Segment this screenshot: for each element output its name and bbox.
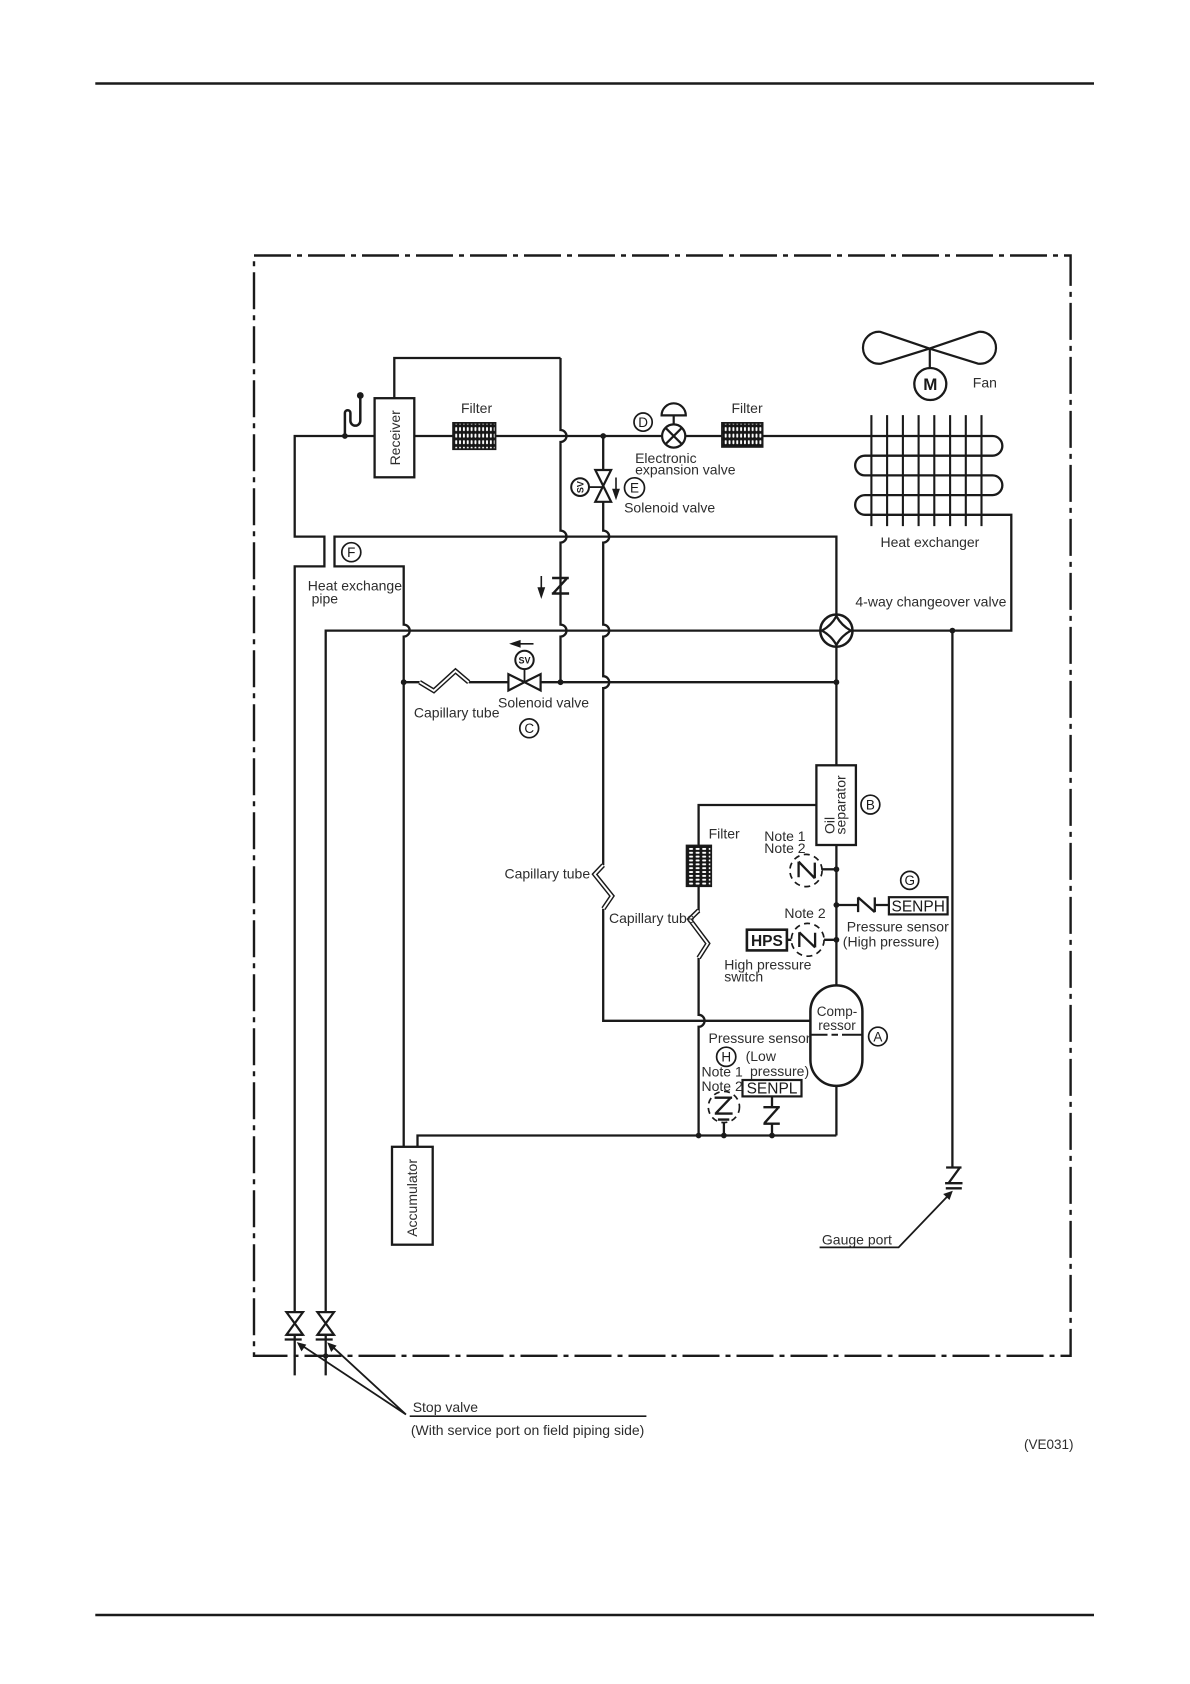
wire: suction line accumulator to compressor <box>418 1136 837 1147</box>
capillary tube 3 <box>690 911 708 958</box>
wire: liquid main line receiver to left corner and down-left riser with heat-exchange-pipe jog to stop valve 1 <box>295 436 375 1312</box>
stop valve 2 <box>316 1312 334 1339</box>
outdoor unit dash-dot border <box>254 256 1071 1356</box>
svg-text:A: A <box>873 1029 882 1044</box>
svg-text:SV: SV <box>518 655 530 665</box>
svg-text:(With service port on field pi: (With service port on field piping side) <box>411 1422 644 1438</box>
solenoid valve C <box>508 641 540 691</box>
svg-text:E: E <box>630 481 639 496</box>
filter 3 (oil return) <box>687 825 740 886</box>
svg-text:switch: switch <box>724 968 763 984</box>
svg-text:Note 2: Note 2 <box>784 905 825 921</box>
svg-text:Filter: Filter <box>732 400 763 416</box>
svg-text:Heat exchanger: Heat exchanger <box>881 534 980 550</box>
node: SENPL drop <box>769 1133 775 1139</box>
wire: stop valve tails below seats <box>295 1335 326 1376</box>
svg-text:Pressure sensor: Pressure sensor <box>847 919 949 935</box>
wire: heat exchange pipe inner line F loop to 4-way valve top <box>335 537 837 1147</box>
wire: SENPL drops to suction line <box>724 1096 772 1135</box>
svg-text:Solenoid valve: Solenoid valve <box>498 694 589 710</box>
svg-text:4-way changeover valve: 4-way changeover valve <box>855 594 1006 610</box>
svg-text:Pressure sensor: Pressure sensor <box>709 1030 811 1046</box>
svg-text:F: F <box>347 545 355 560</box>
wire: main liquid line receiver-filter-EEV-filter to heat exchanger with serpentine coil <box>414 436 1011 631</box>
check valve N1 (Note1/Note2) <box>790 854 822 886</box>
node: accumulator line junction <box>401 679 407 685</box>
check valve at HPS (Note2) <box>791 923 824 956</box>
gauge port leader arrow <box>820 1191 953 1248</box>
filter 1 (liquid line) <box>453 400 495 449</box>
svg-text:Note 2: Note 2 <box>764 840 805 856</box>
high pressure switch HPS box <box>747 930 787 951</box>
wire: solenoid C bypass line <box>404 681 837 683</box>
svg-text:Filter: Filter <box>709 825 740 841</box>
svg-text:Accumulator: Accumulator <box>404 1159 420 1237</box>
compressor A <box>810 985 862 1086</box>
fan motor M <box>914 349 946 400</box>
capillary tube 2 <box>595 865 612 909</box>
oil separator B <box>816 765 856 845</box>
wire: compressor bottom to suction line <box>835 1086 837 1136</box>
svg-text:Gauge port: Gauge port <box>822 1231 892 1247</box>
wire: gauge port line <box>951 631 953 1168</box>
SENPL sensor box <box>743 1080 802 1098</box>
SENPH sensor box <box>889 897 948 915</box>
label circle B <box>861 795 880 814</box>
svg-text:Stop valve: Stop valve <box>413 1399 479 1415</box>
page top rule <box>95 82 1094 85</box>
node: stop valve 2 at border <box>323 1353 328 1358</box>
check valve at SENPH <box>858 897 875 912</box>
node: solenoid C line junction <box>834 679 840 685</box>
wire: receiver top loop <box>394 358 560 398</box>
svg-text:SV: SV <box>575 481 585 493</box>
fan blades <box>863 332 996 364</box>
flare joint under SENPL <box>763 1107 779 1124</box>
flare joint on riser <box>539 576 570 597</box>
heat exchanger fins <box>871 415 981 526</box>
svg-text:pipe: pipe <box>312 591 339 607</box>
wire: loop right riser with crossover hops, down to solenoid-C line <box>561 358 567 682</box>
svg-text:H: H <box>721 1050 731 1065</box>
svg-text:SENPH: SENPH <box>891 899 944 916</box>
svg-text:(High pressure): (High pressure) <box>843 933 939 949</box>
svg-text:(VE031): (VE031) <box>1024 1437 1074 1452</box>
node: service joint drop <box>721 1133 727 1139</box>
svg-text:Capillary tube: Capillary tube <box>414 705 500 721</box>
page bottom rule <box>95 1614 1094 1616</box>
wire: SENPH branch <box>836 904 889 906</box>
accumulator <box>392 1147 433 1245</box>
svg-text:separator: separator <box>833 775 849 834</box>
svg-text:B: B <box>866 797 875 812</box>
node: riser end at bypass line <box>558 679 564 685</box>
svg-text:Comp-: Comp- <box>817 1004 858 1019</box>
filter 2 (before heat exchanger) <box>722 400 763 447</box>
wire: check valve N1 stub <box>821 868 836 870</box>
stop valve label underline <box>410 1415 647 1417</box>
svg-text:pressure): pressure) <box>750 1063 809 1079</box>
float pipe on receiver inlet <box>342 392 364 439</box>
wire: solenoid E branch riser with hops, corner to compressor suction <box>603 436 810 1021</box>
label circle F <box>342 543 361 562</box>
wire: HPS branch <box>787 939 837 941</box>
gauge port capped joint <box>945 1168 962 1189</box>
wire: discharge spine 4-way valve to oil separator to compressor <box>835 647 837 986</box>
svg-text:Solenoid valve: Solenoid valve <box>624 500 715 516</box>
stop valve 1 <box>285 1312 303 1339</box>
label circle G <box>901 871 919 889</box>
svg-text:M: M <box>923 375 937 394</box>
svg-text:Capillary tube: Capillary tube <box>505 865 591 881</box>
capillary tube 1 <box>420 671 469 691</box>
wire: gas line from 4-way valve left to stop valve 2 riser <box>326 631 821 1312</box>
svg-text:Fan: Fan <box>973 375 997 391</box>
svg-text:G: G <box>904 873 915 888</box>
svg-text:C: C <box>524 721 534 736</box>
solenoid valve E <box>571 470 619 502</box>
node: solenoid E branch tap <box>600 433 606 439</box>
4-way changeover valve <box>820 615 852 647</box>
svg-text:ressor: ressor <box>818 1018 856 1033</box>
svg-text:Filter: Filter <box>461 400 492 416</box>
svg-text:D: D <box>638 415 648 430</box>
svg-text:HPS: HPS <box>751 933 783 950</box>
svg-text:Note 2: Note 2 <box>702 1078 743 1094</box>
svg-text:expansion valve: expansion valve <box>635 462 736 478</box>
svg-text:Capillary tube: Capillary tube <box>609 910 695 926</box>
svg-text:(Low: (Low <box>746 1048 777 1064</box>
node: gauge line tap <box>950 628 956 634</box>
label circle D <box>634 413 652 431</box>
label circle A <box>869 1027 888 1046</box>
label circle C <box>520 719 539 738</box>
node: oil return joins suction <box>696 1133 702 1139</box>
label circle H <box>717 1047 736 1066</box>
wire: oil return line with filter and capillary to bottom suction line <box>699 805 817 1136</box>
label circle E <box>625 478 645 498</box>
svg-text:SENPL: SENPL <box>747 1081 798 1098</box>
svg-text:Receiver: Receiver <box>387 410 403 466</box>
stop valve leader arrows <box>297 1342 406 1414</box>
service joint in dashed circle (Note1/Note2) <box>708 1091 739 1122</box>
electronic expansion valve D <box>662 403 686 447</box>
receiver vessel <box>375 398 415 477</box>
